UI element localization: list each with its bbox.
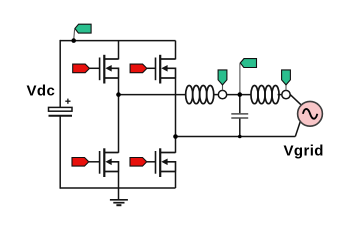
- voltage probe P2 (green flag, capacitor node): [240, 59, 257, 93]
- gate marker Q4 (red flag): [130, 158, 156, 167]
- capacitor C (filter): [231, 114, 248, 118]
- wire Vgrid bottom diagonal: [295, 121, 300, 136]
- wire S1 to L2 (through node C): [227, 94, 251, 96]
- wire left rail upper: [59, 40, 61, 108]
- current sensor S2: [282, 90, 290, 98]
- svg-text:Vdc: Vdc: [27, 83, 56, 100]
- gate marker Q1 (red flag): [73, 64, 100, 73]
- transistor Q3 (lower left MOSFET): [100, 148, 119, 177]
- wire L2 to sensor S2: [278, 94, 282, 96]
- transistor Q2 (upper right MOSFET): [156, 55, 176, 84]
- inductor L1: [186, 86, 214, 104]
- source Vgrid (AC): [298, 101, 323, 126]
- wire left leg drain lead Q1: [118, 41, 120, 60]
- node A (left leg output): [116, 92, 121, 97]
- node top rail probe junction: [71, 38, 76, 43]
- wire L1 to sensor S1: [213, 94, 218, 96]
- current sensor S1: [218, 90, 226, 98]
- transistor Q1 (upper left MOSFET): [100, 55, 119, 84]
- svg-text:Vgrid: Vgrid: [284, 142, 324, 159]
- transistor Q4 (lower right MOSFET): [156, 148, 176, 177]
- current probe flag P4 (green, sensor S2): [282, 70, 291, 90]
- wire capacitor C stem lower: [239, 119, 241, 137]
- wire left leg source lead Q3: [118, 171, 120, 188]
- wire bottom rail: [60, 187, 175, 189]
- wire left rail lower: [59, 116, 61, 189]
- wire right leg source lead Q4: [175, 171, 177, 188]
- wire left leg mid (Q1 source to Q3 drain): [118, 78, 120, 153]
- wire top rail: [60, 40, 175, 42]
- ground: [110, 188, 128, 205]
- node D (capacitor bottom on return): [238, 135, 242, 139]
- gate marker Q2 (red flag): [130, 64, 155, 73]
- current probe flag P3 (green, sensor S1): [218, 70, 227, 90]
- wire capacitor C stem upper: [239, 95, 241, 114]
- wire right leg mid (Q2 source to Q4 drain): [175, 78, 177, 153]
- inductor L2: [251, 86, 279, 104]
- node B (right leg return): [173, 134, 178, 139]
- wire right leg drain lead Q2: [175, 41, 177, 60]
- gate marker Q3 (red flag): [72, 158, 100, 167]
- source Vdc (DC link): [49, 99, 73, 116]
- wire node A to L1: [119, 94, 186, 96]
- wire S2 to Vgrid top: [290, 95, 301, 106]
- wire return rail to node B: [176, 136, 296, 138]
- voltage probe P1 (green flag, DC bus): [74, 24, 91, 40]
- node C (capacitor top): [238, 92, 243, 97]
